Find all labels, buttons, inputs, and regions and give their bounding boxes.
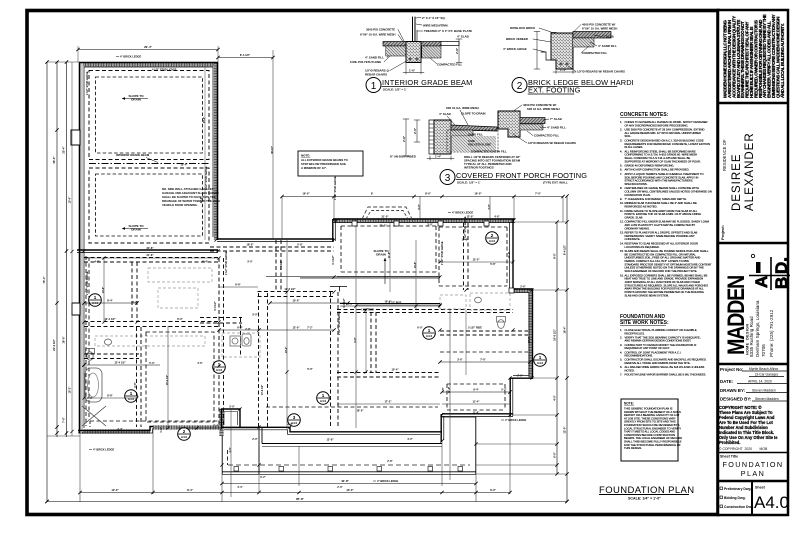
svg-text:ALEXANDER: ALEXANDER	[744, 132, 756, 211]
mid dimension row above wing	[280, 192, 564, 199]
right wing step hatch	[514, 288, 532, 292]
garage right wall	[213, 62, 218, 240]
garage right ledge hatch	[214, 63, 218, 240]
bay window footing	[362, 207, 412, 219]
compacted earth dashed region	[447, 130, 498, 152]
svg-text:BRICK VENEER: BRICK VENEER	[506, 37, 529, 41]
svg-text:7'-0": 7'-0"	[480, 358, 486, 362]
svg-text:2'-0": 2'-0"	[517, 375, 523, 378]
interior dimension rows	[82, 146, 531, 453]
svg-text:3'-6": 3'-6"	[457, 359, 463, 362]
svg-text:10'-4": 10'-4"	[391, 368, 399, 372]
entry porch slab edge	[266, 277, 440, 278]
svg-text:6'-2": 6'-2"	[260, 476, 266, 479]
svg-text:4" BRICK LEDGE: 4" BRICK LEDGE	[120, 55, 142, 59]
right slab	[520, 118, 545, 124]
svg-text:A4.0: A4.0	[320, 399, 327, 403]
svg-text:8'-0": 8'-0"	[418, 204, 421, 209]
bed2 bottom wall	[442, 414, 513, 417]
svg-text:2 1/2" STUD LEDGE: 2 1/2" STUD LEDGE	[86, 271, 89, 295]
rear wall middle	[221, 427, 442, 434]
svg-text:DESIGNED BY:: DESIGNED BY:	[720, 397, 752, 402]
residence of / name (rotated)	[722, 139, 727, 171]
svg-text:7'-6": 7'-6"	[442, 387, 445, 392]
svg-text:Construction Dwg.: Construction Dwg.	[724, 505, 754, 509]
svg-text:REFER TO PLANS FOR ALL DROPS,: REFER TO PLANS FOR ALL DROPS, OFFSETS AN…	[625, 231, 698, 235]
svg-text:6'-4 1/2": 6'-4 1/2"	[332, 255, 335, 264]
svg-text:1: 1	[94, 295, 97, 300]
top disclaimer dense text (rotated)	[723, 14, 785, 98]
address (rotated)	[749, 300, 774, 357]
svg-text:6"X6" 10 GA. WIRE MESH: 6"X6" 10 GA. WIRE MESH	[582, 27, 617, 31]
svg-text:(3-Car Garage): (3-Car Garage)	[755, 373, 778, 377]
garage left wall	[80, 62, 85, 433]
svg-text:MINIMUM SLAB THICKNESS SHALL B: MINIMUM SLAB THICKNESS SHALL BE 4" AND S…	[625, 201, 697, 205]
svg-text:FOUNDATION: FOUNDATION	[723, 460, 784, 469]
svg-text:9'-4 1/2": 9'-4 1/2"	[563, 244, 567, 255]
plan text labels	[86, 55, 527, 484]
svg-text:APRIL 14, 2020: APRIL 14, 2020	[748, 380, 772, 384]
svg-text:A4.0: A4.0	[216, 368, 223, 372]
entry step wall	[333, 219, 336, 241]
svg-text:8'-8": 8'-8"	[107, 394, 113, 398]
svg-text:6'-0": 6'-0"	[177, 317, 183, 321]
svg-text:1'-6": 1'-6"	[160, 427, 163, 432]
left wall pilaster 1	[71, 130, 80, 145]
right wall hatch	[528, 290, 532, 378]
svg-text:© COPYRIGHT 2020 MOB: © COPYRIGHT 2020 MOB	[719, 447, 768, 451]
svg-text:16'-0": 16'-0"	[302, 192, 310, 196]
svg-text:10'-4": 10'-4"	[180, 163, 188, 167]
svg-text:38'-10": 38'-10"	[271, 146, 274, 154]
svg-text:2: 2	[517, 81, 523, 92]
left labels	[503, 26, 536, 51]
svg-text:7'-0": 7'-0"	[535, 192, 542, 196]
svg-text:ALL REINFORCING STEEL SHALL BE: ALL REINFORCING STEEL SHALL BE DEFORMED …	[625, 149, 696, 153]
svg-text:4 1/2" STUD LEDGE: 4 1/2" STUD LEDGE	[152, 68, 177, 72]
svg-text:16'-0": 16'-0"	[474, 192, 482, 196]
svg-text:7'-0": 7'-0"	[62, 416, 66, 423]
svg-text:DRAIN: DRAIN	[376, 253, 386, 257]
svg-text:POLYETHYLENE: POLYETHYLENE	[468, 143, 491, 147]
svg-text:2.: 2.	[620, 128, 622, 132]
svg-text:WIRE MESH/TRIM: WIRE MESH/TRIM	[423, 24, 448, 28]
marker 1/A4.0 family	[423, 327, 436, 340]
svg-text:D.: D.	[772, 257, 791, 274]
svg-text:13.: 13.	[620, 231, 624, 235]
svg-text:2" X 4" X 16" SQ.: 2" X 4" X 16" SQ.	[422, 16, 446, 20]
notes column	[599, 112, 712, 501]
svg-text:SCALE: 1/4" = 1'-0": SCALE: 1/4" = 1'-0"	[628, 497, 661, 501]
svg-text:5'-6": 5'-6"	[490, 262, 496, 266]
svg-text:11.: 11.	[620, 209, 624, 213]
svg-text:3'-0": 3'-0"	[229, 406, 235, 409]
svg-text:CONCRETE.: CONCRETE.	[625, 237, 641, 241]
svg-text:5.: 5.	[620, 358, 622, 362]
extra dim labels scatter	[94, 163, 531, 442]
svg-text:13'-8 1/2": 13'-8 1/2"	[261, 385, 264, 395]
laundry fixtures	[230, 334, 251, 346]
svg-text:DESIREE: DESIREE	[731, 154, 743, 212]
svg-text:18'-0": 18'-0"	[62, 336, 66, 344]
svg-text:AND REMAIN CERTAIN DESIGN COND: AND REMAIN CERTAIN DESIGN CONDITIONS EXI…	[625, 339, 692, 343]
svg-text:1'-4": 1'-4"	[560, 68, 567, 72]
porch slab hatch	[451, 125, 497, 131]
marker 1/A4.0 wic	[125, 390, 138, 403]
svg-text:1: 1	[130, 391, 133, 396]
checkbox column	[720, 487, 754, 509]
svg-text:COMPACTED FILL: COMPACTED FILL	[437, 63, 463, 67]
svg-text:1/2"Ø REBARS W/ REBAR CHAIRS: 1/2"Ø REBARS W/ REBAR CHAIRS	[577, 70, 625, 74]
svg-text:2'-6": 2'-6"	[520, 286, 526, 289]
svg-text:2 1/2" STUD LEDGE: 2 1/2" STUD LEDGE	[464, 216, 467, 240]
porch outer edge	[222, 436, 476, 474]
svg-text:A4.0: A4.0	[754, 493, 789, 512]
svg-text:13'-4 1/2": 13'-4 1/2"	[104, 317, 116, 321]
svg-text:4'-8": 4'-8"	[287, 424, 293, 427]
svg-text:2.: 2.	[620, 335, 622, 339]
svg-text:4'-0": 4'-0"	[553, 394, 557, 401]
left wall hatch (light)	[80, 63, 83, 432]
svg-text:2: 2	[183, 429, 186, 434]
sand right	[520, 124, 543, 130]
svg-text:21'-0": 21'-0"	[381, 215, 389, 219]
svg-text:4" BRICK LEDGE: 4" BRICK LEDGE	[93, 448, 115, 452]
svg-text:4'-0": 4'-0"	[407, 438, 413, 441]
svg-text:16'-0": 16'-0"	[356, 409, 364, 413]
svg-text:COMPACTED FILL: COMPACTED FILL	[582, 51, 608, 55]
svg-text:LOCATIONS AS REQUIRED.: LOCATIONS AS REQUIRED.	[625, 245, 660, 249]
bottom dim	[429, 156, 431, 160]
svg-text:6.: 6.	[620, 365, 622, 369]
garage top ledge hatch	[80, 62, 218, 66]
svg-text:1: 1	[322, 393, 325, 398]
svg-text:ORDINARY MEANS.: ORDINARY MEANS.	[625, 226, 650, 230]
svg-text:3'-0": 3'-0"	[427, 224, 433, 227]
svg-text:POINTS AROUND THE ENTIRE PERIM: POINTS AROUND THE ENTIRE PERIMETER OF TH…	[625, 290, 704, 294]
right dim	[458, 39, 460, 63]
svg-text:1: 1	[539, 355, 542, 360]
svg-text:1/2"Ø REBARS W/ REBAR CHAIRS: 1/2"Ø REBARS W/ REBAR CHAIRS	[528, 141, 576, 145]
svg-text:Bidding Dwg.: Bidding Dwg.	[724, 496, 746, 500]
svg-text:7" SLAB: 7" SLAB	[550, 117, 562, 121]
top labels	[439, 103, 560, 116]
top details	[350, 16, 634, 185]
svg-text:A4.0: A4.0	[181, 435, 188, 439]
AD BD logo (rotated)	[749, 254, 791, 290]
copyright note	[719, 405, 778, 445]
cabinet / closet light dashes	[95, 268, 510, 357]
svg-text:REQUIRED AT ANY POINT OF FACT.: REQUIRED AT ANY POINT OF FACT.	[625, 346, 671, 350]
svg-text:2 1/2" STUD LEDGE: 2 1/2" STUD LEDGE	[441, 241, 444, 265]
svg-text:THIS DESIGN.: THIS DESIGN.	[624, 446, 642, 450]
svg-text:3'-0": 3'-0"	[252, 313, 258, 317]
callout circle 2	[512, 78, 527, 93]
svg-text:Sheet: Sheet	[755, 486, 766, 490]
project no / date / drawn by	[720, 367, 787, 402]
svg-text:8335 Rushing Road: 8335 Rushing Road	[749, 316, 754, 357]
concrete notes items	[620, 120, 712, 297]
foundation plan	[42, 45, 569, 503]
svg-text:8" UN-DISTURBED: 8" UN-DISTURBED	[390, 155, 416, 159]
svg-text:GRADE 40 DEFORMED REINFORCING.: GRADE 40 DEFORMED REINFORCING.	[625, 164, 675, 168]
svg-text:Steven Madden: Steven Madden	[752, 389, 776, 393]
svg-text:7'-2": 7'-2"	[307, 327, 313, 330]
svg-text:SITE WORK NOTES:: SITE WORK NOTES:	[620, 320, 669, 326]
svg-text:8'-4": 8'-4"	[107, 299, 113, 303]
marker 2/A4.0 rear-left	[178, 428, 191, 441]
svg-text:COLUMN OR WALL CENTERLINES UNL: COLUMN OR WALL CENTERLINES UNLESS NOTED …	[625, 190, 712, 194]
svg-text:15.: 15.	[620, 249, 624, 253]
title block	[718, 10, 791, 515]
rear nook	[222, 409, 241, 428]
svg-text:8'-4 1/2": 8'-4 1/2"	[240, 53, 251, 57]
rise labels	[360, 300, 392, 312]
svg-text:Project No:: Project No:	[720, 367, 744, 372]
footing concrete	[551, 33, 573, 69]
svg-text:5'-2": 5'-2"	[501, 389, 507, 392]
right wing step	[513, 289, 533, 293]
top dimension lines	[76, 45, 274, 62]
svg-text:BE CONSTRUCTED ON COMPACTED FI: BE CONSTRUCTED ON COMPACTED FILL OR NATU…	[625, 252, 697, 256]
svg-text:POLYETHYLENE VAPOR BARRIER SHA: POLYETHYLENE VAPOR BARRIER SHALL BE 6 MI…	[625, 373, 707, 377]
svg-text:24'-4 1/2": 24'-4 1/2"	[52, 338, 56, 351]
left dim	[536, 32, 538, 70]
sand hatch left	[386, 46, 406, 56]
svg-text:POINTS. EXPOSE TOP OF SLAB A M: POINTS. EXPOSE TOP OF SLAB A MIN. OF 8" …	[625, 212, 702, 216]
svg-text:1.: 1.	[620, 328, 622, 332]
marker 1/A4.0 right	[534, 354, 547, 367]
svg-text:Sheet Title: Sheet Title	[720, 455, 738, 459]
svg-text:(TYP.) EXT. WALL: (TYP.) EXT. WALL	[543, 181, 568, 185]
svg-text:19'-0": 19'-0"	[69, 196, 72, 204]
svg-text:4'-2": 4'-2"	[132, 301, 138, 304]
svg-text:12'-4": 12'-4"	[528, 337, 531, 344]
svg-text:6'-0": 6'-0"	[553, 451, 557, 458]
svg-text:SUPPORTED AT MIDPOINT OF SLAB: SUPPORTED AT MIDPOINT OF SLAB THICKNESS …	[625, 159, 701, 163]
stud lines	[412, 17, 414, 42]
sand hatch right	[573, 38, 594, 47]
right lower step	[510, 376, 533, 379]
svg-text:7" SLAB: 7" SLAB	[602, 35, 614, 39]
right wing east wall	[510, 219, 514, 291]
svg-text:GRADE. SLAB: GRADE. SLAB	[625, 216, 643, 220]
svg-text:21'-0": 21'-0"	[379, 224, 387, 228]
svg-text:Prohibited.: Prohibited.	[719, 440, 740, 445]
svg-text:4'-4": 4'-4"	[237, 486, 243, 489]
svg-text:CONCRETE NOTES:: CONCRETE NOTES:	[620, 112, 669, 118]
svg-text:6'-0": 6'-0"	[490, 488, 497, 492]
svg-text:11'-4": 11'-4"	[473, 412, 480, 415]
svg-text:9'-4": 9'-4"	[473, 388, 479, 392]
svg-text:5 1/2" RISE: 5 1/2" RISE	[468, 326, 482, 330]
svg-text:2 1/2" STUD LEDGE: 2 1/2" STUD LEDGE	[338, 311, 341, 335]
bed2 east wall	[510, 378, 513, 416]
svg-text:NOTE:: NOTE:	[624, 402, 634, 406]
svg-text:3.: 3.	[620, 343, 622, 347]
svg-text:8.: 8.	[620, 186, 622, 190]
svg-text:6"X6" 10-GA. WIRE MESH: 6"X6" 10-GA. WIRE MESH	[360, 33, 396, 37]
svg-text:4.: 4.	[620, 149, 622, 153]
svg-text:11'-0": 11'-0"	[448, 387, 451, 393]
svg-text:Myrtle Beach-Minor: Myrtle Beach-Minor	[749, 367, 779, 371]
svg-text:12.: 12.	[620, 220, 624, 224]
svg-text:AND ALL LOCAL BUILDING AUTHORI: AND ALL LOCAL BUILDING AUTHORITY.	[780, 24, 785, 98]
extra small dim ticks rows	[83, 117, 515, 433]
front wall main (hatched above)	[333, 219, 515, 223]
svg-text:4" SAND FILL: 4" SAND FILL	[598, 44, 617, 48]
rear wall left	[78, 427, 153, 434]
svg-text:COVERED FRONT PORCH FOOTING: COVERED FRONT PORCH FOOTING	[456, 171, 587, 180]
svg-text:COMPACTED EARTH FILL: COMPACTED EARTH FILL	[471, 150, 507, 154]
patio east edge	[442, 417, 476, 474]
svg-text:6.: 6.	[620, 168, 622, 172]
svg-text:4" BRICK LEDGE: 4" BRICK LEDGE	[503, 47, 527, 51]
svg-text:6X6 10-GA. WIRE MESH: 6X6 10-GA. WIRE MESH	[446, 106, 479, 110]
marker 1/A4.0 bed3	[317, 392, 330, 405]
svg-text:VEHICLE DOOR OPENING.: VEHICLE DOOR OPENING.	[162, 203, 198, 207]
wall hatch shading (brick ledge fuzz)	[80, 63, 532, 436]
svg-text:3: 3	[445, 173, 451, 184]
svg-text:4" SAND FILL: 4" SAND FILL	[365, 56, 384, 60]
svg-text:IN ALL CASES.: IN ALL CASES.	[625, 145, 644, 149]
svg-text:7.: 7.	[620, 172, 622, 176]
svg-text:9'-6": 9'-6"	[354, 337, 357, 342]
svg-text:8'-0": 8'-0"	[425, 192, 432, 196]
svg-text:Denham Springs, Louisiana: Denham Springs, Louisiana	[755, 300, 760, 357]
svg-text:6X6 10 GA. WIRE MESH: 6X6 10 GA. WIRE MESH	[527, 107, 560, 111]
svg-text:REBAR CHAIRS: REBAR CHAIRS	[365, 73, 387, 77]
svg-text:SCALE: 1/2" = 1': SCALE: 1/2" = 1'	[383, 88, 407, 92]
svg-text:AND LOW PLASTICITY CLAYS MAY B: AND LOW PLASTICITY CLAYS MAY BE COMPACTE…	[625, 223, 696, 227]
marker 2/A4.0 wing	[486, 232, 499, 245]
svg-text:APPLY A LIQUID TERMITE SHIELD: APPLY A LIQUID TERMITE SHIELD CHEMICAL T…	[625, 172, 704, 176]
svg-text:2'-6": 2'-6"	[455, 47, 459, 54]
right labels	[528, 117, 576, 145]
svg-text:16'-4": 16'-4"	[563, 326, 567, 334]
svg-text:12'-6 1/2": 12'-6 1/2"	[284, 287, 296, 291]
svg-text:A4.0: A4.0	[489, 239, 496, 243]
bed2 west jog	[441, 414, 444, 442]
fourth left dim line	[69, 62, 74, 436]
svg-text:8'-0 1/2": 8'-0 1/2"	[214, 301, 217, 310]
svg-text:6'-8": 6'-8"	[134, 382, 137, 387]
svg-text:3: 3	[293, 415, 296, 420]
svg-text:RESTRAIN TO SLAB RECESSED AT A: RESTRAIN TO SLAB RECESSED AT ALL EXTERIO…	[625, 241, 699, 245]
brick ladder pier	[429, 120, 434, 154]
bath2 fixtures	[475, 297, 506, 328]
dimension extension lines	[47, 50, 563, 502]
detail 2: brick ledge below hardi ext footing	[503, 23, 634, 95]
svg-text:5'-4": 5'-4"	[202, 260, 208, 264]
sand under porch slab	[451, 130, 473, 136]
svg-text:ROWLOCK BRICK: ROWLOCK BRICK	[510, 26, 536, 30]
svg-text:5'-8": 5'-8"	[297, 244, 303, 247]
svg-text:5'-0": 5'-0"	[149, 362, 155, 365]
svg-text:DRAWN BY:: DRAWN BY:	[720, 388, 746, 393]
svg-text:11'-4": 11'-4"	[473, 400, 481, 404]
marker 1/A4.0 master	[89, 294, 102, 307]
svg-text:9.: 9.	[620, 197, 622, 201]
callout circle 3	[440, 170, 455, 185]
svg-text:7.: 7.	[620, 373, 622, 377]
porch step edge	[259, 427, 442, 474]
svg-text:1'-4": 1'-4"	[435, 155, 442, 159]
svg-text:18'-2": 18'-2"	[69, 386, 72, 394]
svg-text:NEAT AND TRUE TO LINE AND GRAD: NEAT AND TRUE TO LINE AND GRADE. PROVIDE…	[625, 277, 704, 281]
svg-text:DATE:: DATE:	[720, 379, 734, 384]
svg-text:RECEPTACLES.: RECEPTACLES.	[625, 331, 646, 335]
svg-text:ALL GRADE BEAMS MIN. 12" INTO: ALL GRADE BEAMS MIN. 12" INTO NATURAL UN…	[625, 131, 702, 135]
svg-text:4'-0": 4'-0"	[229, 447, 232, 452]
svg-text:14.: 14.	[620, 241, 624, 245]
NOTE box	[621, 399, 678, 461]
nook vertical hatch	[219, 409, 223, 436]
svg-text:SAND FILL: SAND FILL	[468, 133, 483, 137]
svg-text:40'-0": 40'-0"	[346, 488, 354, 492]
marker 3/A4.0 rear-center	[288, 414, 301, 427]
svg-text:A: A	[752, 276, 771, 288]
svg-text:5.: 5.	[620, 164, 622, 168]
svg-text:INTERIOR FOOTINGS: INTERIOR FOOTINGS	[464, 166, 494, 170]
front wall garage to entry	[217, 239, 334, 242]
svg-text:2 1/2" STUD LEDGE: 2 1/2" STUD LEDGE	[225, 251, 228, 275]
front wall column pads	[352, 221, 514, 293]
detail 3: covered front porch footing	[390, 103, 587, 185]
svg-text:B: B	[772, 277, 791, 289]
svg-text:FOUNDATION PLAN.: FOUNDATION PLAN.	[625, 193, 651, 197]
project label	[720, 225, 725, 240]
bottom dim	[405, 63, 407, 74]
svg-text:12'-0": 12'-0"	[466, 215, 474, 219]
right labels	[577, 23, 625, 74]
wall junction ticks	[82, 218, 533, 466]
svg-text:4" SAND FILL: 4" SAND FILL	[547, 126, 566, 130]
svg-text:REMOVE ALL TRASH AND DEBRIS FR: REMOVE ALL TRASH AND DEBRIS FROM THE SIT…	[625, 361, 691, 365]
svg-text:6'-0": 6'-0"	[417, 327, 423, 330]
svg-text:OF ANY DISCREPANCIES BEFORE PR: OF ANY DISCREPANCIES BEFORE PROCEEDING.	[625, 123, 689, 127]
beam concrete	[406, 42, 421, 63]
svg-text:1'-8": 1'-8"	[87, 397, 93, 400]
svg-text:SLOPE TO DRAIN: SLOPE TO DRAIN	[461, 112, 486, 116]
svg-text:11'-4": 11'-4"	[508, 252, 511, 258]
svg-text:4" SLAB: 4" SLAB	[439, 112, 451, 116]
svg-text:12'-0": 12'-0"	[292, 326, 300, 330]
right wall	[529, 289, 533, 379]
garage inner rings	[96, 77, 203, 236]
front wall hatch	[334, 218, 514, 222]
svg-text:RESIDENCE OF: RESIDENCE OF	[722, 139, 727, 171]
svg-text:PLAN: PLAN	[741, 469, 765, 478]
svg-text:Steven Madden: Steven Madden	[755, 397, 779, 401]
svg-text:2 1/2" STUD LEDGE: 2 1/2" STUD LEDGE	[205, 166, 208, 190]
svg-text:4'-0": 4'-0"	[94, 260, 100, 264]
svg-text:4" BRICK LEDGE: 4" BRICK LEDGE	[505, 418, 527, 422]
center grade beam	[498, 111, 520, 137]
MADDEN logo (rotated)	[722, 276, 749, 355]
garage top wall	[79, 63, 218, 68]
svg-text:SLAB AND GRADE BEAM SYSTEM.: SLAB AND GRADE BEAM SYSTEM.	[625, 293, 670, 297]
svg-text:ANTI-HO ASP COMPACTION SHALL B: ANTI-HO ASP COMPACTION SHALL BE PROVIDED…	[625, 168, 690, 172]
ledge step	[541, 52, 551, 60]
master bath fixtures	[82, 339, 112, 426]
svg-text:ALL WELDED WIRE FABRIC SHALL B: ALL WELDED WIRE FABRIC SHALL BE 6x6 W1.4…	[625, 365, 705, 369]
svg-text:25'-4": 25'-4"	[62, 146, 66, 154]
svg-text:NOTE:: NOTE:	[301, 154, 310, 158]
svg-text:1.: 1.	[620, 120, 622, 124]
svg-text:SOIL.: SOIL.	[625, 134, 632, 138]
svg-text:REINFORCED AS NOTED.: REINFORCED AS NOTED.	[625, 205, 658, 209]
